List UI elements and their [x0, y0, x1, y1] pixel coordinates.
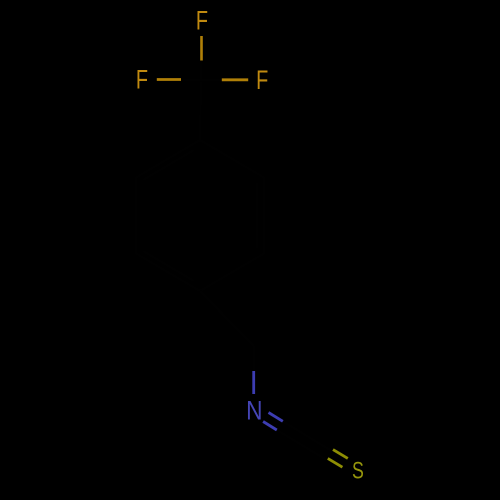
black halves of C-F bonds — [181, 61, 222, 81]
svg-text:S: S — [352, 458, 364, 484]
bond CH2-N black half — [252, 346, 255, 371]
svg-text:F: F — [136, 65, 148, 94]
bond ring-CH2 — [200, 291, 254, 346]
carbon skeleton (black-on-black as in source, invisible) — [136, 61, 331, 460]
benzene ring — [136, 140, 264, 291]
N=C=S black middle segments — [277, 421, 331, 459]
bond C7(CF3)-ring — [200, 80, 201, 140]
bond C-F3 (orange half) — [222, 78, 248, 81]
bond C-F2 (orange half) — [157, 78, 181, 81]
svg-text:N: N — [246, 396, 262, 426]
double bond N=C lower line (blue part) — [263, 422, 277, 431]
bond C-F1 (orange half) — [200, 36, 203, 61]
svg-text:F: F — [196, 6, 208, 35]
bond ring-N (blue half) — [252, 371, 255, 394]
svg-text:F: F — [256, 65, 268, 94]
double bond C=S upper line (olive part) — [333, 450, 348, 459]
aromatic inner bonds — [143, 150, 257, 281]
double bond C=S lower line (olive part) — [328, 458, 343, 467]
double bond N=C upper line (blue part) — [269, 413, 283, 422]
